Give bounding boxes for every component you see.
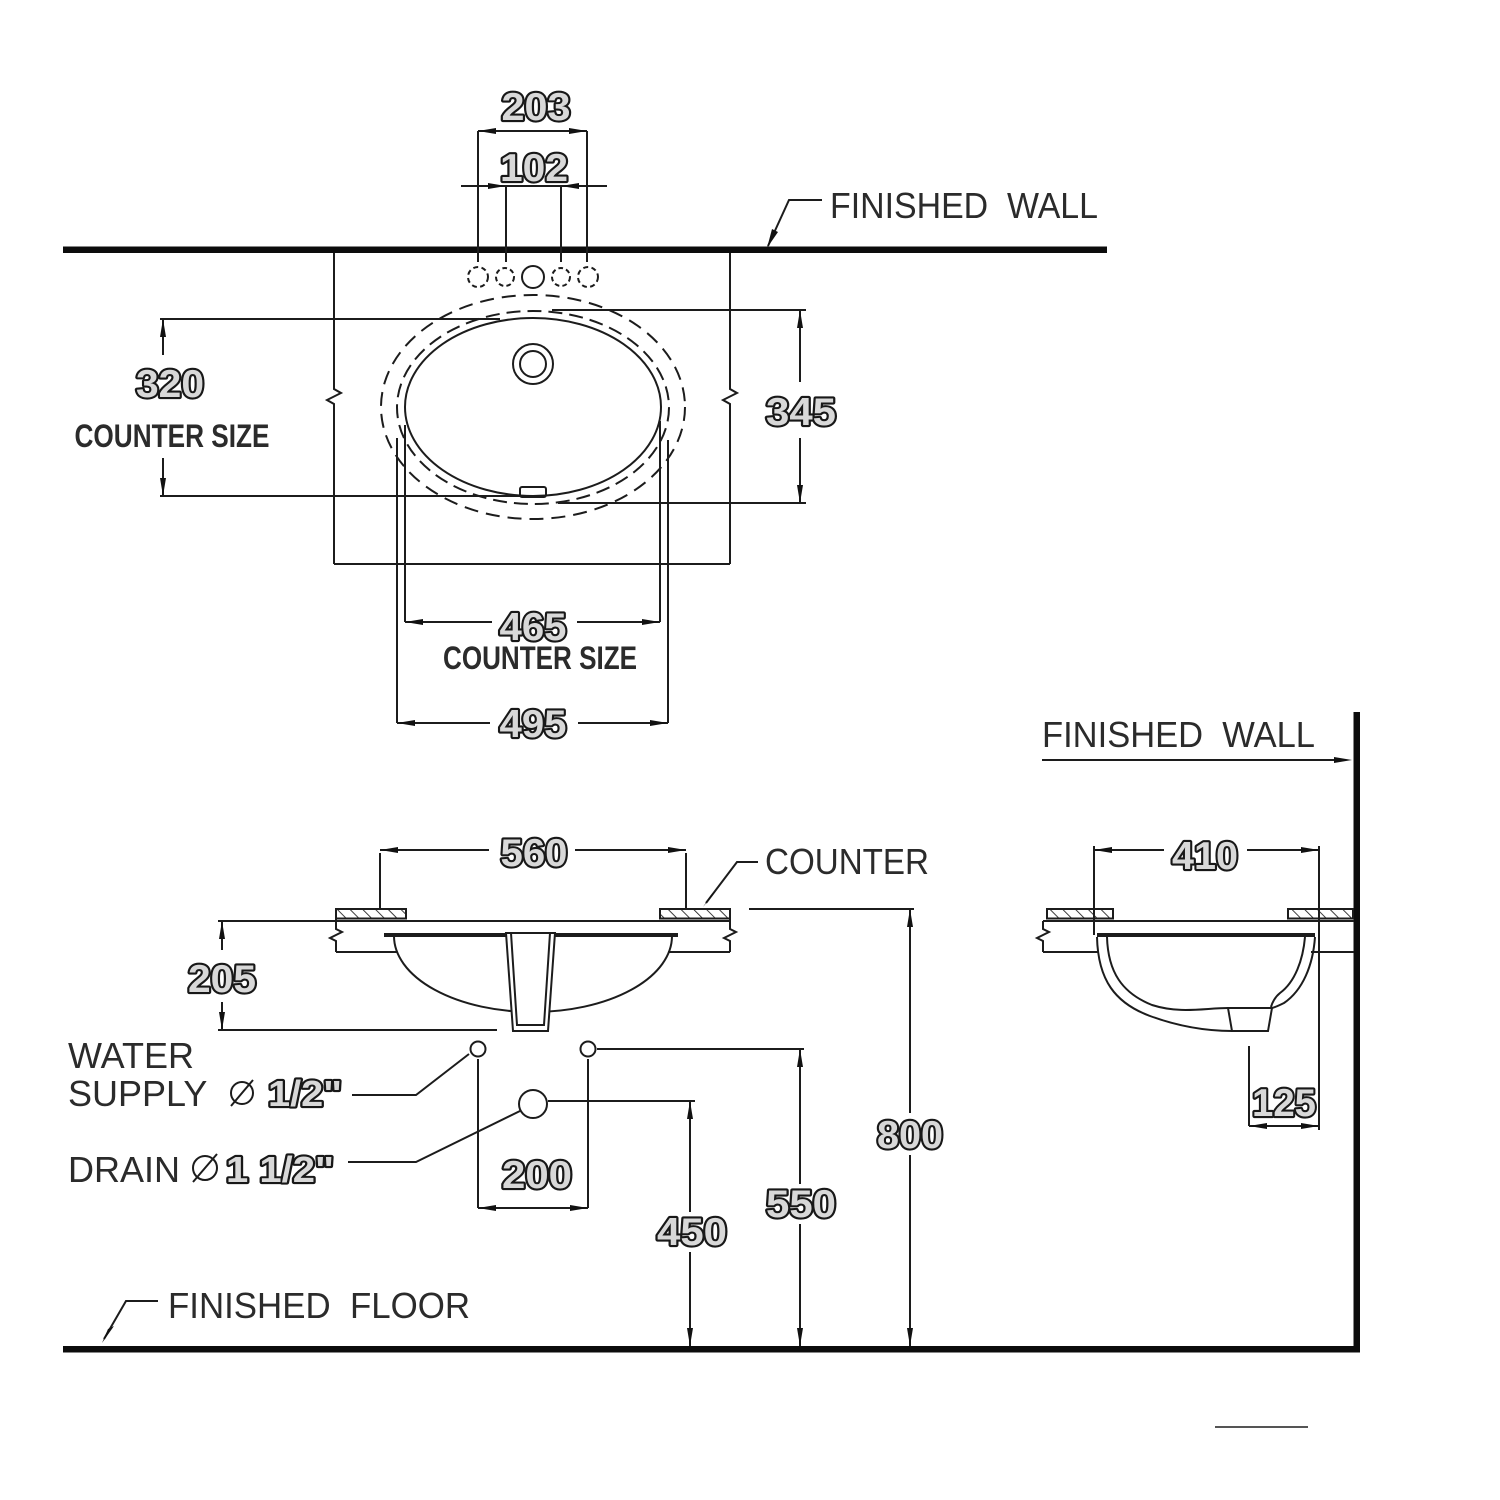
svg-text:450: 450 — [657, 1211, 727, 1254]
svg-text:SUPPLY: SUPPLY — [68, 1073, 207, 1114]
svg-text:COUNTER SIZE: COUNTER SIZE — [443, 640, 637, 676]
svg-text:102: 102 — [500, 147, 568, 190]
svg-text:205: 205 — [188, 958, 256, 1001]
svg-text:200: 200 — [502, 1154, 572, 1197]
svg-text:410: 410 — [1172, 835, 1238, 878]
svg-text:560: 560 — [501, 832, 568, 875]
svg-text:COUNTER: COUNTER — [765, 841, 929, 882]
svg-text:495: 495 — [500, 703, 567, 746]
svg-text:125: 125 — [1252, 1082, 1316, 1125]
svg-text:1 1/2": 1 1/2" — [226, 1149, 334, 1190]
svg-text:800: 800 — [877, 1114, 943, 1157]
svg-text:345: 345 — [766, 391, 836, 434]
svg-text:550: 550 — [766, 1183, 836, 1226]
svg-text:320: 320 — [136, 363, 204, 406]
svg-text:WATER: WATER — [68, 1035, 194, 1076]
svg-text:FINISHED WALL: FINISHED WALL — [1042, 714, 1315, 755]
svg-text:COUNTER SIZE: COUNTER SIZE — [75, 418, 270, 454]
svg-text:DRAIN: DRAIN — [68, 1149, 180, 1190]
svg-text:1/2": 1/2" — [268, 1073, 342, 1114]
svg-text:203: 203 — [502, 86, 571, 129]
svg-text:FINISHED FLOOR: FINISHED FLOOR — [168, 1285, 470, 1326]
svg-text:FINISHED WALL: FINISHED WALL — [830, 185, 1098, 226]
